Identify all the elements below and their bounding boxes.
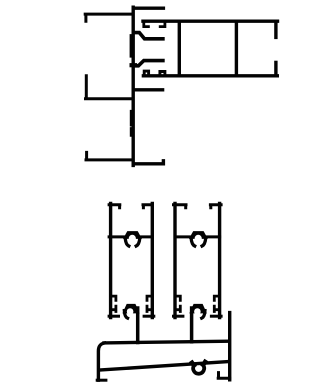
sash3 left wall hook A [175,296,180,300]
sash2 lower clip hole [127,308,134,315]
sash2 top lip left [109,205,120,208]
sash3 right wall hook B [214,306,219,311]
sash2 right wall hook A [147,296,152,300]
sill top line [104,341,229,343]
sill clip loop [193,365,204,373]
sash3 upper clip legs [191,238,206,246]
gasket finger 2 [134,61,163,66]
sash2 lower clip hood [122,304,139,314]
lower T-slot right lip [160,72,165,77]
sash3 left wall hook B [175,306,180,311]
sash2 right wall hook B [147,306,152,311]
sash web 2 [235,21,238,76]
frame screw boss upper [130,35,133,56]
frame mid stub [134,88,163,91]
sash2 lower clip stub [136,308,140,343]
sill clip horns [192,362,205,366]
sill left foot [97,379,106,382]
sash2 lower clip left leg [124,311,127,319]
sill sloped bottom [99,362,229,371]
sash3 left wall [173,203,176,317]
finger 2 root bump [132,63,135,67]
frame screw boss lower [130,111,133,135]
sash3 right wall hook A [214,296,219,300]
sash2 upper clip hood [123,231,142,239]
sash3 upper clip hood [189,231,208,239]
frame lower-left arm [86,152,133,160]
upper T-slot right lip [160,21,165,26]
frame upper-left arm [85,14,133,21]
sash3 lower clip right leg [202,311,205,319]
sash right wall lower [274,62,277,75]
sash2 gasket line [109,235,152,238]
sash3 gasket line [175,235,220,238]
sash2 upper clip hole [129,235,136,242]
gasket finger 1 [134,33,163,39]
sash2 left wall foot [109,315,118,318]
frame top edge [133,6,163,9]
sash2 right wall foot [144,315,154,318]
sash3 lower clip hood [189,304,207,314]
sash2 upper clip legs [125,238,140,246]
sill right foot [218,373,230,379]
sill right upstand [228,313,231,380]
upper T-slot left lip [144,21,149,26]
sash3 right wall [218,203,221,317]
frame middle-left arm [86,76,134,99]
sash3 right wall foot [211,315,221,318]
sash3 top lip left [174,205,187,208]
frame left wall [131,7,134,165]
sash2 right wall [151,203,154,317]
sash2 left wall [109,203,112,317]
sash bottom line [143,74,277,77]
sash3 lower clip stub [190,308,194,342]
sash top line [143,20,278,23]
sash3 lower clip hole [194,308,201,315]
sill left corner curve [98,343,104,380]
sash3 upper clip hole [195,235,202,242]
sash2 left wall hook A [111,296,116,300]
sash2 left wall hook B [111,306,116,311]
sash3 left wall foot [174,315,183,318]
sash right wall upper [274,21,277,37]
sash web 1 [178,21,181,76]
lower T-slot left lip [144,71,148,76]
frame bottom edge [133,161,163,164]
sash2 top lip right [143,205,152,208]
sash3 top lip right [210,205,221,208]
